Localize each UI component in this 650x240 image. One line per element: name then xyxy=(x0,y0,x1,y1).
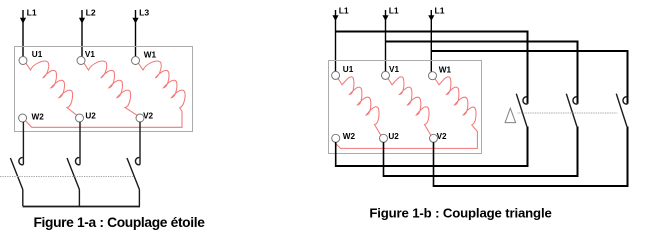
terminal V2 (right fig) xyxy=(430,134,438,142)
switch linkage dashed line (left fig) xyxy=(0,176,135,178)
terminal U1 (right fig) xyxy=(332,71,340,79)
wire supply line L1 #1 (right fig) xyxy=(335,10,337,72)
terminal V2 (left fig) xyxy=(136,114,144,122)
winding W1-W2 coil (left fig) xyxy=(139,61,186,107)
svg-text:W2: W2 xyxy=(32,113,45,122)
switch KM2 pole 1 blade (right fig) xyxy=(516,94,527,127)
svg-text:L1: L1 xyxy=(435,5,445,15)
terminal W1 (left fig) xyxy=(132,57,140,65)
svg-text:L1: L1 xyxy=(27,8,37,18)
svg-text:W2: W2 xyxy=(343,132,356,141)
wire switch pole 1 to star bar (left fig) xyxy=(22,190,24,207)
winding U1-U2 (right fig) xyxy=(338,77,381,136)
wire supply line L1 #3 (right fig) xyxy=(430,10,432,72)
wire switch pole 3 to star bar (left fig) xyxy=(138,190,140,207)
svg-text:Figure 1-a : Couplage étoile: Figure 1-a : Couplage étoile xyxy=(33,215,205,230)
wire W2 drop (right fig) xyxy=(335,142,337,166)
svg-text:L3: L3 xyxy=(139,8,149,18)
switch linkage dotted line (right fig) xyxy=(518,112,618,114)
wire U2 to switch contact (left fig) xyxy=(79,122,81,165)
terminal U1 (left fig) xyxy=(19,57,27,65)
wire supply line L3 (left fig) xyxy=(135,10,137,57)
switch KM pole 2 fixed contact hook (left fig) xyxy=(75,158,80,165)
wire line 2 to switch 2 top (right fig) xyxy=(386,42,578,104)
switch KM pole 1 fixed contact hook (left fig) xyxy=(19,158,24,165)
wire U2 drop (right fig) xyxy=(383,142,385,176)
switch KM2 pole 2 fixed contact hook (right fig) xyxy=(573,97,578,104)
svg-text:V2: V2 xyxy=(437,132,447,141)
motor terminal box (right fig) xyxy=(329,61,482,154)
triangle (delta) symbol (right fig) xyxy=(505,108,515,122)
wire switch pole 2 to star bar (left fig) xyxy=(78,190,80,207)
wire line 3 to switch 3 top (right fig) xyxy=(431,51,627,104)
svg-text:U2: U2 xyxy=(388,132,399,141)
svg-text:W1: W1 xyxy=(439,65,452,74)
switch KM pole 3 fixed contact hook (left fig) xyxy=(135,158,140,165)
wire line 1 to switch 1 top (right fig) xyxy=(336,32,528,104)
wire U2 to switch 2 bottom (right fig) xyxy=(383,127,578,177)
svg-text:U1: U1 xyxy=(32,50,43,59)
winding U1-U2 (left fig) xyxy=(26,61,77,115)
terminal W2 (left fig) xyxy=(19,114,27,122)
terminal V1 (right fig) xyxy=(382,71,390,79)
switch KM pole 3 blade (left fig) xyxy=(127,158,139,190)
arrow L3 (left fig) xyxy=(132,18,138,24)
switch KM2 pole 3 blade (right fig) xyxy=(616,94,627,127)
wire star point bar (left fig) xyxy=(23,206,140,208)
winding V1-V2 (left fig) xyxy=(84,61,137,115)
svg-text:L1: L1 xyxy=(389,5,399,15)
terminal W2 (right fig) xyxy=(332,134,340,142)
wire supply line L1 #2 (right fig) xyxy=(385,10,387,72)
arrow L1 #1 (right fig) xyxy=(332,15,338,21)
svg-text:U2: U2 xyxy=(85,112,96,121)
switch KM2 pole 1 fixed contact hook (right fig) xyxy=(523,97,528,104)
switch KM pole 2 blade (left fig) xyxy=(67,158,79,190)
svg-text:L2: L2 xyxy=(86,8,96,18)
wire V2 to switch 3 bottom (right fig) xyxy=(433,127,628,187)
terminal W1 (right fig) xyxy=(429,72,437,80)
arrow L1 #2 (right fig) xyxy=(382,15,388,21)
arrow L2 (left fig) xyxy=(79,18,85,24)
motor terminal box (left fig) xyxy=(15,47,193,132)
wire supply line L1 (left fig) xyxy=(22,10,24,57)
winding W1-W2 coil (right fig) xyxy=(435,77,476,125)
arrow L1 (left fig) xyxy=(20,18,26,24)
svg-text:U1: U1 xyxy=(343,65,354,74)
wire W2 to switch 1 bottom (right fig) xyxy=(335,127,528,167)
wire W2 to switch contact (left fig) xyxy=(22,122,24,165)
svg-text:V1: V1 xyxy=(85,50,95,59)
svg-text:V1: V1 xyxy=(389,65,399,74)
svg-text:Figure 1-b : Couplage triangle: Figure 1-b : Couplage triangle xyxy=(369,206,551,221)
wire winding W1 return to W2 (right fig, red) xyxy=(335,125,478,149)
svg-text:W1: W1 xyxy=(144,50,157,59)
switch KM2 pole 3 fixed contact hook (right fig) xyxy=(623,97,628,104)
wire winding W1 return to W2 (left fig, red) xyxy=(25,108,182,128)
wire V2 to switch contact (left fig) xyxy=(139,122,141,165)
switch KM pole 1 blade (left fig) xyxy=(10,158,22,190)
terminal U2 (left fig) xyxy=(76,114,84,122)
svg-text:V2: V2 xyxy=(143,112,153,121)
svg-text:L1: L1 xyxy=(339,5,349,15)
terminal U2 (right fig) xyxy=(380,134,388,142)
winding V1-V2 (right fig) xyxy=(388,77,431,136)
wire V2 drop (right fig) xyxy=(433,142,435,186)
terminal V1 (left fig) xyxy=(77,57,85,65)
arrow L1 #3 (right fig) xyxy=(428,15,434,21)
switch KM2 pole 2 blade (right fig) xyxy=(566,94,577,127)
wire supply line L2 (left fig) xyxy=(81,10,83,57)
